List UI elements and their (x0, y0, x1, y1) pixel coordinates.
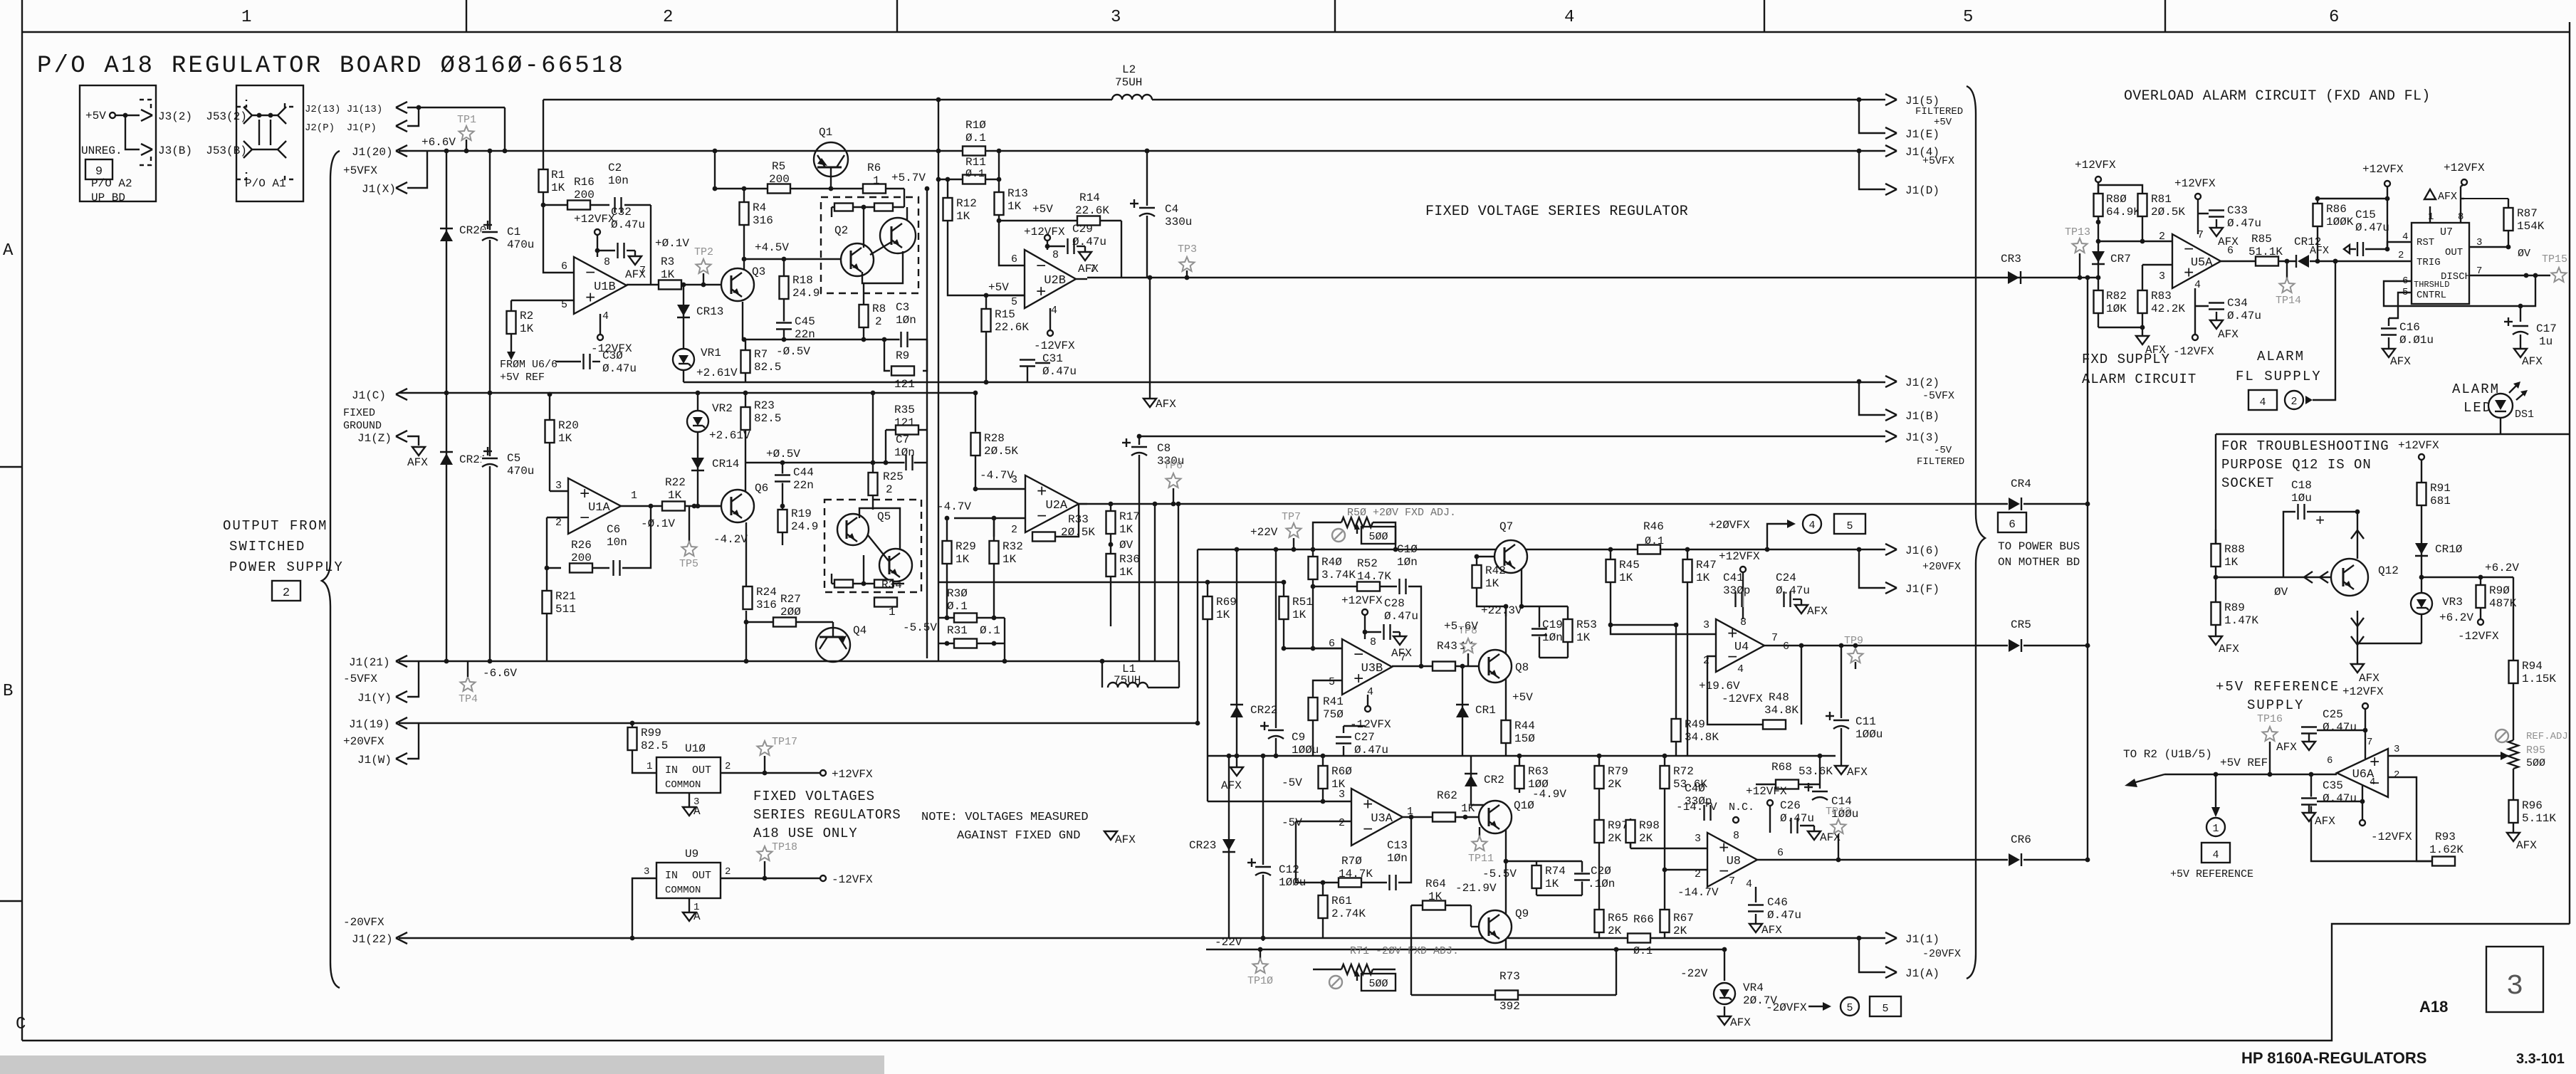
svg-text:R4Ø: R4Ø (1321, 556, 1342, 569)
resistor R47 1K (1687, 549, 1688, 756)
svg-text:Ø.Ø1u: Ø.Ø1u (2399, 334, 2434, 347)
bus -5VFX (684, 381, 1885, 383)
svg-text:4: 4 (1808, 520, 1815, 532)
ground AFX C11 (1841, 756, 1842, 766)
svg-text:1: 1 (889, 606, 896, 618)
wire Q3 collector (743, 259, 745, 270)
svg-text:+12VFX: +12VFX (1719, 550, 1760, 563)
svg-text:J3(B) J53(B): J3(B) J53(B) (158, 144, 247, 157)
wire R64 line (1411, 905, 1471, 906)
svg-text:-4.2V: -4.2V (713, 533, 748, 546)
capacitor C16 (2388, 318, 2389, 326)
resistor R52 14.7K (1357, 582, 1380, 591)
resistor R32 1K (993, 518, 995, 618)
svg-text:2K: 2K (1608, 778, 1622, 791)
svg-text:24.9: 24.9 (791, 520, 818, 533)
svg-text:ØV: ØV (2518, 248, 2530, 260)
ground AFX C24 (1795, 605, 1808, 614)
box ref 4 alarm (2248, 390, 2277, 410)
resistor R11 0.1 (938, 179, 999, 180)
svg-text:R23: R23 (754, 399, 775, 412)
svg-text:5.11K: 5.11K (2522, 812, 2556, 825)
wire cntrl (2389, 293, 2412, 318)
resistor Q5 bias a (834, 580, 853, 588)
svg-text:-20VFX: -20VFX (1922, 948, 1961, 960)
svg-text:1K: 1K (520, 322, 534, 335)
ground AFX R96 (2507, 833, 2520, 841)
test point TP7 (1293, 538, 1294, 549)
test point TP12 (1831, 819, 1846, 833)
resistor R2 1K (511, 300, 512, 356)
transistor Q2b (880, 218, 916, 253)
svg-text:8: 8 (1370, 636, 1376, 648)
capacitor C29 (1047, 246, 1065, 247)
box 500 R50 (1361, 527, 1396, 544)
svg-text:R65: R65 (1608, 912, 1628, 925)
svg-text:+5V REFERENCE: +5V REFERENCE (2170, 868, 2253, 880)
diode CR12 (2298, 255, 2309, 268)
svg-text:-5VFX: -5VFX (1922, 390, 1954, 402)
svg-text:+5.7V: +5.7V (891, 172, 926, 184)
svg-text:R2: R2 (520, 310, 533, 322)
svg-text:R42: R42 (1485, 564, 1506, 577)
svg-text:2: 2 (725, 761, 731, 772)
test point TP9 (1855, 662, 1856, 669)
svg-text:J1(B): J1(B) (1905, 410, 1939, 423)
svg-text:1K: 1K (2224, 556, 2239, 569)
svg-text:8: 8 (1740, 616, 1747, 628)
svg-text:+12VFX: +12VFX (2444, 162, 2485, 174)
svg-text:+12VFX: +12VFX (2362, 163, 2404, 176)
svg-text:+12VFX: +12VFX (1341, 594, 1383, 607)
capacitor C14 100u (1811, 789, 1828, 799)
wire U7 disch (2469, 275, 2550, 276)
svg-text:CR23: CR23 (1189, 839, 1216, 852)
svg-text:5ØØ: 5ØØ (1368, 531, 1388, 543)
svg-text:+12VFX: +12VFX (2174, 177, 2216, 190)
svg-text:RST: RST (2417, 237, 2434, 248)
svg-text:4: 4 (1564, 8, 1574, 27)
svg-text:TP17: TP17 (772, 736, 797, 748)
svg-text:-21.9V: -21.9V (1455, 882, 1497, 895)
svg-text:J1(21): J1(21) (349, 656, 390, 669)
svg-text:C18: C18 (2291, 479, 2312, 492)
svg-text:TP2: TP2 (694, 246, 713, 258)
svg-text:ØV: ØV (1119, 539, 1133, 552)
resistor R10 0.1 (963, 147, 985, 156)
svg-text:R11: R11 (965, 156, 986, 169)
resistor R25 2 (872, 393, 874, 473)
capacitor C17 1u (2520, 306, 2521, 322)
wire U2A pin2 (954, 517, 1025, 519)
svg-text:4: 4 (2212, 849, 2219, 861)
svg-text:Ø.47u: Ø.47u (1780, 812, 1814, 825)
transistor Q6 (721, 490, 754, 522)
wire CR3-CR7 (2085, 275, 2090, 280)
wire R11 drop (998, 151, 1000, 179)
node R1-R16 (541, 203, 546, 208)
svg-text:3: 3 (2394, 744, 2399, 755)
svg-text:FILTERED: FILTERED (1915, 106, 1963, 117)
svg-text:CR4: CR4 (2011, 478, 2031, 490)
svg-text:R87: R87 (2517, 207, 2538, 220)
capacitor C34 (2195, 305, 2210, 307)
box ref 6 (1998, 512, 2026, 532)
svg-text:J1(D): J1(D) (1905, 184, 1939, 197)
circle ref 4 (1803, 515, 1821, 533)
resistor R22 1K (662, 502, 685, 511)
svg-text:1ØØ: 1ØØ (1528, 778, 1549, 791)
capacitor C41 330p (1734, 591, 1744, 607)
svg-text:VR3: VR3 (2442, 596, 2463, 609)
arrow J3(B) (141, 144, 152, 149)
resistor R4 316 (743, 189, 745, 259)
resistor R83 42.2K (2142, 265, 2143, 327)
row tick A-B (0, 466, 22, 468)
svg-text:R48: R48 (1769, 691, 1789, 704)
svg-text:R94: R94 (2522, 660, 2543, 673)
wire trouble left col (2215, 434, 2216, 544)
svg-text:SWITCHED: SWITCHED (229, 539, 305, 554)
resistor R44 150 (1502, 720, 1511, 743)
svg-text:R74: R74 (1545, 865, 1566, 878)
svg-text:R67: R67 (1673, 912, 1694, 925)
resistor R15 22.6K (985, 295, 987, 382)
resistor R42 1K (1476, 557, 1477, 565)
wire Q3 base-Q2a (744, 258, 841, 260)
transistor Q12 (2331, 559, 2368, 596)
wire thrshld loop (2384, 275, 2535, 306)
svg-text:15Ø: 15Ø (1514, 732, 1535, 745)
wire CR13 column (683, 285, 684, 382)
resistor R89 1.47K (2211, 602, 2221, 625)
test point TP5 (688, 506, 690, 542)
inductor L2 75UH (1112, 91, 1152, 108)
resistor R94 1.15K (2513, 577, 2514, 740)
resistor R99 82.5 (628, 727, 637, 750)
op-amp U3B (1342, 639, 1392, 695)
wire Q1 base lead (830, 167, 832, 189)
svg-text:22.6K: 22.6K (1075, 204, 1109, 217)
arrow to ref1 (2215, 774, 2216, 811)
svg-text:CR5: CR5 (2011, 618, 2031, 631)
base chevrons Q12 (2304, 572, 2313, 577)
capacitor C3 10n (900, 332, 909, 347)
svg-text:C46: C46 (1767, 896, 1788, 909)
svg-text:R3Ø: R3Ø (947, 587, 968, 600)
svg-text:J2(13) J1(13): J2(13) J1(13) (305, 104, 382, 115)
transistor Q2a (841, 243, 874, 276)
bus fixed ground (399, 392, 976, 394)
svg-text:1K: 1K (1696, 572, 1710, 584)
svg-text:C4: C4 (1165, 203, 1178, 216)
svg-text:A18: A18 (2419, 998, 2448, 1016)
svg-text:R22: R22 (665, 476, 686, 489)
ground A U9 (683, 912, 696, 921)
svg-text:R89: R89 (2224, 601, 2245, 614)
svg-text:TP12: TP12 (1826, 806, 1851, 818)
svg-text:1K: 1K (668, 489, 682, 502)
capacitor C28 (1365, 631, 1381, 633)
svg-text:3: 3 (1703, 619, 1710, 631)
-12VFX terminal (820, 875, 826, 881)
wire U1B out (627, 284, 659, 285)
svg-text:R44: R44 (1514, 720, 1535, 732)
op-amp U2A (1025, 475, 1079, 532)
capacitor C1 (489, 151, 491, 393)
svg-text:Ø.47u: Ø.47u (611, 219, 645, 231)
svg-text:ALARM: ALARM (2257, 349, 2305, 364)
svg-text:TP11: TP11 (1468, 853, 1494, 865)
resistor R5 200 (768, 184, 790, 194)
wire Q10-Q9 col (1505, 861, 1507, 915)
svg-text:10n: 10n (608, 174, 629, 187)
svg-text:C5: C5 (507, 452, 520, 465)
box ref 5 bot (1870, 996, 1901, 1016)
resistor R49 34.8K (1675, 625, 1677, 756)
svg-text:Q1Ø: Q1Ø (1514, 799, 1534, 812)
svg-text:R9Ø: R9Ø (2489, 584, 2510, 597)
wire J1(F) drop (1857, 547, 1862, 552)
svg-text:L2: L2 (1122, 63, 1136, 76)
test point TP17 (764, 756, 765, 773)
wire R22 out (685, 505, 722, 507)
svg-text:1.62K: 1.62K (2429, 843, 2464, 856)
svg-text:R28: R28 (984, 432, 1005, 445)
svg-text:2: 2 (725, 866, 731, 878)
svg-text:-14.7V: -14.7V (1677, 886, 1719, 899)
svg-text:14.7K: 14.7K (1357, 570, 1391, 583)
svg-text:+12VFX: +12VFX (2075, 159, 2116, 172)
svg-text:C: C (16, 1015, 26, 1034)
svg-text:Q9: Q9 (1515, 907, 1529, 920)
svg-text:1Øn: 1Øn (1387, 852, 1408, 865)
capacitor C5 470u (489, 393, 491, 661)
wire U1A pin3 (550, 490, 568, 492)
test point TP15 (2552, 268, 2567, 282)
svg-text:TP18: TP18 (772, 841, 797, 853)
LED arrows (2509, 383, 2519, 393)
svg-text:AFX: AFX (1730, 1016, 1751, 1029)
arrow J1(13) (396, 102, 407, 107)
svg-text:42.2K: 42.2K (2151, 302, 2185, 315)
diode CR6 (2009, 853, 2020, 866)
svg-text:A: A (693, 805, 701, 818)
svg-text:-12VFX: -12VFX (1034, 339, 1075, 352)
wire U9 pin3 (632, 878, 656, 938)
svg-text:N.C.: N.C. (1729, 801, 1754, 814)
transistor Q1 (814, 142, 848, 177)
svg-text:R49: R49 (1685, 718, 1705, 731)
grey scan bar bottom left (0, 1055, 884, 1074)
svg-text:+5V: +5V (1934, 117, 1952, 128)
svg-text:R96: R96 (2522, 799, 2543, 812)
svg-text:AFX: AFX (2390, 355, 2411, 368)
column tick 5 (2164, 0, 2166, 32)
wire U8 pin2 (1665, 869, 1707, 870)
svg-text:+5V: +5V (1512, 691, 1533, 704)
svg-text:-12VFX: -12VFX (1350, 718, 1391, 731)
wire Q10 emitter (1505, 829, 1507, 861)
svg-text:TP14: TP14 (2276, 295, 2301, 307)
svg-text:R21: R21 (555, 590, 576, 603)
bus -20VFX (399, 937, 1885, 939)
svg-text:2: 2 (2398, 250, 2404, 261)
svg-text:P/O A2: P/O A2 (91, 177, 132, 190)
svg-text:COMMON: COMMON (665, 885, 701, 896)
svg-text:+5V REF: +5V REF (2220, 757, 2268, 769)
wire CR20 column (446, 151, 447, 393)
resistor R7 82.5 (745, 339, 746, 382)
resistor R31 0.1 (938, 643, 1005, 644)
svg-text:2ØØ: 2ØØ (780, 606, 801, 618)
resistor R30 0.1 (938, 617, 1005, 618)
feedback R33 (993, 518, 995, 537)
svg-text:1K: 1K (1619, 572, 1633, 584)
svg-text:24.9: 24.9 (792, 287, 820, 300)
diode CR22 col (1236, 549, 1237, 756)
diode CR3 (2008, 271, 2019, 284)
resistor R96 5.11K (2513, 769, 2514, 800)
svg-text:OUT: OUT (692, 764, 711, 776)
resistor R43 1K (1433, 662, 1455, 671)
svg-text:SUPPLY: SUPPLY (2247, 697, 2304, 713)
resistor R40 3.74K (1312, 549, 1314, 586)
svg-text:R66: R66 (1633, 913, 1654, 926)
svg-text:C2Ø: C2Ø (1591, 865, 1611, 878)
pot R95 REF ADJ (2508, 740, 2518, 769)
resistor R91 681 (2421, 460, 2422, 512)
transistor Q4 (816, 628, 850, 662)
dashed box Q5 (824, 500, 921, 592)
wire R51-pin6 (1284, 648, 1342, 649)
resistor Q2 bias a (834, 204, 853, 211)
svg-text:3: 3 (1011, 474, 1017, 486)
svg-text:Ø.47u: Ø.47u (2323, 721, 2357, 734)
svg-text:J1(E): J1(E) (1905, 128, 1939, 141)
svg-text:-12VFX: -12VFX (1722, 693, 1763, 705)
svg-text:4: 4 (2370, 776, 2375, 788)
svg-text:75UH: 75UH (1114, 674, 1141, 687)
svg-text:2: 2 (2290, 396, 2297, 408)
wire Q2b base link (870, 242, 891, 255)
svg-text:R6Ø: R6Ø (1331, 765, 1352, 778)
svg-text:2: 2 (875, 315, 882, 328)
svg-text:Q3: Q3 (752, 265, 765, 278)
svg-text:C29: C29 (1072, 223, 1093, 236)
svg-text:1K: 1K (1119, 566, 1133, 579)
svg-text:R7Ø: R7Ø (1341, 855, 1362, 868)
svg-text:8: 8 (1733, 830, 1739, 842)
svg-text:3.74K: 3.74K (1321, 569, 1356, 581)
svg-text:UP BD: UP BD (91, 191, 125, 204)
resistor R74 1K (1536, 861, 1537, 895)
-12VFX supply U1B (597, 335, 603, 340)
P/O A1 box (236, 85, 303, 201)
svg-text:3: 3 (2506, 971, 2523, 1003)
svg-text:1: 1 (631, 490, 637, 502)
transistor Q5b (879, 549, 912, 581)
capacitor C11 100u (1841, 646, 1842, 756)
ground AFX note (1104, 831, 1117, 840)
svg-text:2Ø.5K: 2Ø.5K (2151, 206, 2185, 219)
svg-text:121: 121 (894, 378, 915, 391)
svg-text:Ø.47u: Ø.47u (1354, 744, 1388, 757)
transistor Q8 (1479, 650, 1512, 683)
resistor R46 0.1 (1638, 545, 1660, 554)
svg-text:R6: R6 (867, 162, 881, 174)
diode CR1 col (1462, 666, 1463, 756)
resistor R65 2K (1598, 847, 1600, 938)
svg-text:R29: R29 (955, 540, 976, 553)
capacitor C20 (1581, 861, 1583, 895)
svg-text:5: 5 (1011, 296, 1017, 308)
svg-text:-5.5V: -5.5V (903, 621, 937, 634)
resistor R20 1K (545, 420, 555, 443)
svg-text:J1(Z): J1(Z) (357, 432, 392, 445)
arrow J1(3) (1885, 431, 1897, 436)
wire CR col riser (2087, 278, 2088, 860)
wire U8 pin3 (1630, 848, 1707, 849)
svg-text:U5A: U5A (2191, 256, 2213, 270)
transistor Q10 (1479, 801, 1512, 833)
svg-text:2: 2 (663, 8, 673, 27)
wire Q9 emitter (1505, 939, 1507, 949)
svg-text:TRIG: TRIG (2417, 257, 2441, 268)
svg-text:R61: R61 (1331, 895, 1352, 907)
wire Q4 base lead (832, 622, 834, 637)
svg-text:+Ø.5V: +Ø.5V (766, 448, 800, 460)
diode CR10 (2421, 512, 2422, 577)
svg-text:Ø.1: Ø.1 (947, 600, 968, 613)
svg-text:C27: C27 (1354, 731, 1375, 744)
svg-text:6: 6 (1329, 638, 1335, 650)
svg-text:CNTRL: CNTRL (2417, 290, 2446, 301)
bus +6.6V (399, 150, 1885, 152)
svg-text:3: 3 (644, 866, 649, 878)
svg-text:B: B (3, 682, 13, 701)
diode CR14 (691, 458, 704, 469)
svg-text:3.3-101: 3.3-101 (2516, 1051, 2565, 1067)
svg-text:R63: R63 (1528, 765, 1549, 778)
svg-text:R95: R95 (2526, 744, 2545, 757)
wire Q6 base (698, 505, 721, 507)
svg-text:1: 1 (646, 761, 652, 772)
svg-text:AFX: AFX (2315, 815, 2335, 828)
svg-text:C26: C26 (1780, 799, 1801, 812)
svg-text:R41: R41 (1323, 695, 1344, 708)
bus U2A out (1079, 503, 2008, 505)
svg-text:U3B: U3B (1361, 662, 1383, 675)
bus -6.6V (399, 660, 1178, 662)
svg-text:OVERLOAD ALARM CIRCUIT (FXD AN: OVERLOAD ALARM CIRCUIT (FXD AND FL) (2124, 88, 2431, 105)
svg-text:U8: U8 (1727, 855, 1741, 868)
diode CR7 (2098, 222, 2099, 278)
arrow J1(6) (1885, 544, 1897, 549)
screw R71 (1329, 976, 1342, 989)
svg-text:FIXED VOLTAGES: FIXED VOLTAGES (753, 789, 875, 804)
svg-text:AFX: AFX (625, 268, 646, 281)
svg-text:1K: 1K (956, 210, 970, 223)
ground AFX J1Z (412, 447, 425, 456)
svg-text:82.5: 82.5 (754, 361, 781, 374)
svg-text:R81: R81 (2151, 193, 2172, 206)
svg-text:-22V: -22V (1680, 967, 1708, 980)
svg-text:1Øn: 1Øn (1542, 631, 1563, 644)
capacitor C31 (1027, 362, 1050, 364)
diag arrow +5vref (2133, 774, 2164, 783)
capacitor C27 (1336, 736, 1351, 745)
